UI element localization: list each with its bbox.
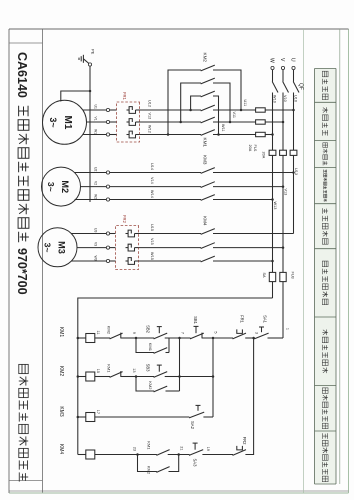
svg-text:W: W <box>269 58 275 63</box>
wire SA3 to node21 <box>168 454 190 456</box>
wire label W14 <box>150 190 154 198</box>
coil KM4 <box>86 450 95 459</box>
wire bus V13 (middle phase) <box>282 106 284 338</box>
label KM1 (coil) <box>58 327 64 338</box>
wire M1 phase3 drop <box>265 134 272 136</box>
svg-text:KM3: KM3 <box>203 155 208 165</box>
wire node1 drop <box>268 337 284 339</box>
junction M1 tap V <box>282 121 285 124</box>
wire M3 phase2 drop <box>213 247 283 249</box>
coil KM1 <box>86 334 95 343</box>
terminal M2 U <box>106 171 109 174</box>
junction out tie ph2 <box>179 121 182 124</box>
function table: header band <box>304 29 340 493</box>
wire KM2 out 3 to M1 ph1 <box>191 96 201 110</box>
svg-text:FR2: FR2 <box>122 215 127 224</box>
wire label U11 <box>243 100 247 107</box>
svg-text:SA3: SA3 <box>193 459 198 468</box>
svg-text:FR1: FR1 <box>122 92 127 101</box>
wire M1 phase2 <box>213 121 256 123</box>
wire KM1 contact to node23 <box>138 454 157 456</box>
function label 控制电源保护 <box>322 261 328 305</box>
wire M3 ph1 to terminal <box>110 233 116 235</box>
motor M2 (rapid traverse motor) <box>42 167 81 206</box>
svg-text:20A: 20A <box>262 152 266 159</box>
wire label W15 <box>150 252 154 260</box>
svg-text:SB1: SB1 <box>193 316 198 325</box>
fuse FU1 phase1 <box>256 108 266 112</box>
wire M2 ph3 to terminal <box>110 199 201 201</box>
node 11 label <box>96 331 100 335</box>
svg-text:U11: U11 <box>243 100 247 107</box>
wire KM2 coil to rail <box>78 376 86 378</box>
svg-text:U: U <box>290 58 296 62</box>
wire to KM1 coil <box>95 337 110 339</box>
svg-text:7: 7 <box>180 332 184 334</box>
contactor KM2 main contacts (spindle reverse) <box>201 53 215 97</box>
function label 冷却泵电机 <box>322 208 328 244</box>
junction out tie ph3 <box>167 133 170 136</box>
wire FR1 to node5 <box>202 337 233 339</box>
label SA <box>262 273 266 279</box>
junction M3 tap V <box>282 246 285 249</box>
motor M1 (spindle motor) <box>43 100 87 144</box>
junction node 3 <box>252 337 255 340</box>
terminal M1 U <box>106 108 109 111</box>
wire label V12 <box>148 113 152 120</box>
junction rail KM1 <box>77 337 80 340</box>
wire M1 phase1 (fuse to contact) <box>213 109 256 111</box>
coil KM2 <box>86 372 95 381</box>
fuse on bus phase b <box>280 150 287 155</box>
motor lead label V1 <box>94 117 98 121</box>
junction tie U11-KM2 <box>240 109 243 112</box>
svg-text:20A: 20A <box>248 145 252 152</box>
wire KM1 coil to rail <box>78 337 86 339</box>
svg-text:KM1: KM1 <box>147 441 152 450</box>
stop button SB1 (NC) <box>190 316 204 339</box>
wire label V11 <box>232 112 236 118</box>
motor lead label V2 <box>94 181 98 185</box>
start button SB2 (NO) <box>146 325 168 339</box>
contactor KM1 auxiliary contact (self-hold) <box>148 343 167 354</box>
svg-text:V10: V10 <box>283 95 287 102</box>
svg-text:W2: W2 <box>94 194 98 199</box>
wire label V15 <box>150 238 154 245</box>
wire SB3 to node13 <box>136 376 154 378</box>
svg-text:W3: W3 <box>94 256 98 261</box>
wire M3 ph3 to terminal <box>110 260 116 262</box>
wire M1 ph3 to terminal <box>110 134 117 136</box>
function label 主轴电机 <box>322 107 328 135</box>
svg-text:M3: M3 <box>57 241 67 254</box>
function label 冷却泵电机控制 <box>322 433 328 481</box>
function label 电源开关 <box>322 71 328 99</box>
contactor KM2 contact (NO) on KM4 rung <box>147 466 170 475</box>
switch SA3 <box>189 443 203 467</box>
wire M3 phase3 drop <box>213 260 273 262</box>
wire KM3 coil to rail <box>78 416 86 418</box>
motor M2 lead wires <box>75 173 107 200</box>
contactor KM1 contact (NO) on KM4 rung <box>147 441 170 455</box>
wire SB2 jumper top <box>168 338 170 353</box>
junction node 9 <box>135 337 138 340</box>
switch SA2 (coolant) <box>189 405 213 429</box>
wire SB1 to node7 <box>165 337 191 339</box>
svg-text:FR1: FR1 <box>240 315 245 324</box>
wire label W13 <box>273 202 277 210</box>
svg-text:V3: V3 <box>94 242 98 246</box>
wire label W12 <box>148 125 152 133</box>
fuse on bus phase c <box>269 150 276 155</box>
svg-text:V15: V15 <box>150 238 154 245</box>
motor lead label W3 <box>94 256 98 261</box>
wire rung B drop <box>165 376 180 378</box>
function label 主轴电机控制 <box>322 330 328 374</box>
svg-text:11: 11 <box>96 331 100 335</box>
terminal M3 V <box>106 246 109 249</box>
terminal M1 W <box>106 133 109 136</box>
svg-text:SB3: SB3 <box>146 364 151 373</box>
thermal contact FR2 (NC) <box>233 437 248 456</box>
motor lead label U1 <box>94 105 98 109</box>
wire bus W13 (bottom phase) <box>272 106 274 298</box>
svg-text:13: 13 <box>132 368 136 372</box>
svg-text:SA: SA <box>262 273 266 279</box>
svg-text:FU1: FU1 <box>253 145 257 152</box>
supply terminal V <box>279 58 285 82</box>
svg-text:FR2: FR2 <box>242 437 247 446</box>
contactor KM3 main contacts (rapid traverse) <box>201 155 215 200</box>
wire tie to KM2 branch 1 <box>213 70 241 110</box>
wire M1 ph2 to FR1 <box>140 121 202 123</box>
svg-text:U10: U10 <box>293 95 297 102</box>
wire node23 to KM4 coil <box>95 454 138 456</box>
function label 刀架快速移动电机 <box>324 170 327 202</box>
motor lead label U3 <box>94 228 98 232</box>
node 9 label <box>132 332 136 334</box>
svg-text:CA6140: CA6140 <box>15 52 29 98</box>
wire label W11 <box>221 124 225 132</box>
wire tie to KM2 branch 3 <box>213 96 219 135</box>
svg-text:W11: W11 <box>221 124 225 132</box>
PE terminal and ground symbol <box>79 49 96 66</box>
junction M1 tap W <box>271 133 274 136</box>
contactor KM1 interlock contact (NC) on KM2 rung <box>107 364 123 377</box>
wire node21 jumper <box>169 455 179 472</box>
junction node 13 <box>135 375 138 378</box>
svg-text:W14: W14 <box>150 190 154 198</box>
svg-text:KM4: KM4 <box>203 216 208 226</box>
supply terminal W <box>269 58 275 82</box>
wire M1 ph1 to FR1 <box>140 109 202 111</box>
motor M1 lead wires <box>83 110 107 135</box>
svg-text:W1: W1 <box>94 129 98 134</box>
wire aux KM2 bottom <box>136 377 154 392</box>
wire label U14 <box>150 163 154 170</box>
label KM2 (coil) <box>58 366 64 377</box>
wire aux KM1 self-hold drop <box>166 352 170 354</box>
contactor KM2 auxiliary contact (self-hold) <box>148 381 167 392</box>
label FU3 <box>290 272 294 279</box>
fuse on bus phase a <box>290 150 297 155</box>
svg-text:KM3: KM3 <box>58 406 64 417</box>
svg-text:KM1: KM1 <box>107 364 112 373</box>
start button SB3 (NO) <box>146 364 168 378</box>
svg-text:KM2: KM2 <box>148 381 153 390</box>
svg-text:W15: W15 <box>150 252 154 260</box>
junction tie V11-KM2 <box>229 121 232 124</box>
wire M1 phase1 drop <box>265 109 293 111</box>
svg-text:KM1: KM1 <box>203 138 208 148</box>
title block separator <box>9 29 43 493</box>
svg-text:FU3: FU3 <box>290 272 294 279</box>
wire node13 down <box>121 376 136 378</box>
wire KM2 out 2 to M1 ph2 <box>181 83 201 122</box>
wire label V13 <box>284 189 288 196</box>
wire M1 ph1 to terminal <box>110 109 117 111</box>
node 19 label <box>206 447 210 451</box>
thermal contact FR1 (NC) <box>233 315 247 339</box>
motor lead label V3 <box>94 242 98 246</box>
wire M2 phase1 drop <box>213 172 294 174</box>
circuit breaker QF <box>272 82 303 107</box>
wire control return rail <box>78 298 273 455</box>
svg-text:W10: W10 <box>272 95 276 103</box>
wire M2 ph1 to terminal <box>110 172 201 174</box>
title text 苏州经贸职业技术学院 <box>19 364 28 481</box>
wire feeder node7 to KM2 branch <box>179 338 181 391</box>
motor lead label W2 <box>94 194 98 199</box>
svg-text:V2: V2 <box>94 181 98 185</box>
junction tie W11-KM2 <box>217 133 220 136</box>
wire FR2 to node19 <box>202 454 233 456</box>
svg-text:U14: U14 <box>150 163 154 170</box>
junction out tie ph1 <box>189 109 192 112</box>
wire node9 down <box>121 337 136 339</box>
svg-text:M1: M1 <box>62 116 73 130</box>
wire KM2 contact to node23 <box>138 455 157 472</box>
svg-text:970*700: 970*700 <box>15 248 29 295</box>
wire KM2 out 1 to M1 ph3 <box>168 70 201 135</box>
svg-text:KM4: KM4 <box>58 444 64 455</box>
svg-text:M2: M2 <box>60 180 70 193</box>
junction node 5 <box>212 337 215 340</box>
svg-text:23: 23 <box>133 447 137 451</box>
svg-text:KM1: KM1 <box>148 343 153 352</box>
wire KM4 coil to rail <box>78 454 86 456</box>
node 7 label <box>180 332 184 334</box>
wire label V10 <box>283 95 287 102</box>
svg-text:V13: V13 <box>284 189 288 196</box>
fuse FU3 (control feed) <box>280 272 286 281</box>
wire M1 ph3 to FR1 <box>140 134 202 136</box>
title text 型卧式车床电气原理图 <box>18 106 29 243</box>
svg-text:KM2: KM2 <box>147 466 152 475</box>
svg-text:V14: V14 <box>150 177 154 184</box>
junction M1 tap U <box>292 109 295 112</box>
fuse FU1 phase3 <box>256 132 266 136</box>
terminal M3 U <box>106 232 109 235</box>
wire M3 phase1 drop (bus U end) <box>213 233 294 235</box>
junction PE stub <box>89 90 92 93</box>
wire M2 phase2 drop <box>213 186 283 188</box>
svg-text:SB2: SB2 <box>146 325 151 334</box>
svg-text:W12: W12 <box>148 125 152 133</box>
terminal M2 W <box>106 198 109 201</box>
thermal overload relay FR2 (heaters) <box>116 215 139 270</box>
junction node 7 <box>178 337 181 340</box>
title text CA6140 <box>15 52 29 98</box>
wire M2 ph2 to terminal <box>110 186 201 188</box>
junction M3 tap W <box>271 260 274 263</box>
contactor KM1 main contacts (spindle forward) <box>201 105 215 147</box>
svg-text:3~: 3~ <box>46 182 56 192</box>
svg-text:KM2: KM2 <box>203 53 208 63</box>
svg-text:U13: U13 <box>294 168 298 175</box>
wire feeder node3 to FR2 <box>245 338 253 455</box>
wire M2 phase3 drop <box>213 199 273 201</box>
svg-text:19: 19 <box>206 447 210 451</box>
motor lead label U2 <box>94 167 98 171</box>
node 21 label <box>180 446 184 450</box>
wire PE stub to M1 frame <box>61 91 90 102</box>
svg-text:U1: U1 <box>94 105 98 109</box>
svg-text:V1: V1 <box>94 117 98 121</box>
svg-text:KM2: KM2 <box>107 326 112 335</box>
wire feeder link <box>180 376 214 378</box>
junction rail KM3 <box>77 416 80 419</box>
label 20A (FU1) <box>248 145 252 152</box>
junction M2 tap U <box>292 171 295 174</box>
wire label V14 <box>150 177 154 184</box>
wire M1 ph2 to terminal <box>110 121 117 123</box>
wire M1 phase2 drop <box>265 121 283 123</box>
wire label U13 <box>294 168 298 175</box>
wire label U10 <box>293 95 297 102</box>
svg-text:U12: U12 <box>148 100 152 107</box>
junction rail KM2 <box>77 375 80 378</box>
wire feeder node5 to SA2 <box>212 338 214 417</box>
wire KM2 aux feed <box>166 390 180 392</box>
svg-text:3~: 3~ <box>43 243 53 253</box>
fuse FU1 phase2 <box>256 120 266 124</box>
function table: cells <box>315 69 337 485</box>
svg-text:U2: U2 <box>94 167 98 171</box>
junction M2 tap W <box>271 198 274 201</box>
node 1 label <box>286 328 290 330</box>
svg-text:V12: V12 <box>148 113 152 120</box>
svg-text:W13: W13 <box>273 202 277 210</box>
supply terminal U <box>290 58 296 82</box>
motor M3 lead wires <box>71 234 106 262</box>
wire label U15 <box>150 224 154 231</box>
svg-text:SA2: SA2 <box>190 421 195 430</box>
node 5 label <box>214 331 218 333</box>
label FU1 <box>253 145 257 152</box>
contactor KM4 main contacts (coolant pump) <box>201 216 215 262</box>
junction feeder link bottom <box>178 375 181 378</box>
svg-text:KM2: KM2 <box>58 366 64 377</box>
svg-text:5: 5 <box>214 331 218 333</box>
wire label U12 <box>148 100 152 107</box>
wire M1 phase3 <box>213 134 256 136</box>
svg-text:17: 17 <box>96 410 100 414</box>
label KM3 (coil) <box>58 406 64 417</box>
terminal M1 V <box>106 120 109 123</box>
motor lead label W1 <box>94 129 98 134</box>
wire SA2 to KM3 coil <box>95 416 190 418</box>
coil KM3 <box>86 413 95 422</box>
wire SB2 to node9 <box>136 337 154 339</box>
svg-text:1: 1 <box>286 328 290 330</box>
svg-text:15: 15 <box>96 369 100 373</box>
node 13 label <box>132 368 136 372</box>
title text 970*700 <box>15 248 29 295</box>
wire M3 ph3 to FR2 <box>139 260 202 262</box>
switch SA1 <box>254 315 268 339</box>
svg-text:V11: V11 <box>232 112 236 118</box>
node 23 label <box>133 447 137 451</box>
svg-text:3: 3 <box>254 332 258 334</box>
function label 短路保护 <box>323 143 328 166</box>
svg-text:KM1: KM1 <box>58 327 64 338</box>
terminal M3 W <box>106 259 109 262</box>
junction feeder link top <box>212 375 215 378</box>
label KM4 (coil) <box>58 444 64 455</box>
wire M3 ph1 to FR2 <box>139 233 202 235</box>
junction node 21 <box>177 453 180 456</box>
contactor KM2 interlock contact (NC) on KM1 rung <box>107 326 123 339</box>
svg-text:U15: U15 <box>150 224 154 231</box>
wire SA1 to node3 <box>245 337 255 339</box>
wire PE line <box>89 66 91 202</box>
svg-text:9: 9 <box>132 332 136 334</box>
thermal overload relay FR1 (heaters) <box>117 92 140 142</box>
wire M3 ph2 to terminal <box>110 247 116 249</box>
wire aux KM1 bottom <box>136 338 154 353</box>
function label 刀架快速移动 <box>322 388 328 429</box>
node 17 label <box>96 410 100 414</box>
node 15 label <box>96 369 100 373</box>
svg-text:QF: QF <box>298 83 304 90</box>
svg-text:PE: PE <box>91 49 96 55</box>
wire tie to KM2 branch 2 <box>213 83 230 122</box>
terminal M2 V <box>106 185 109 188</box>
svg-text:SA1: SA1 <box>263 315 268 324</box>
svg-text:21: 21 <box>180 446 184 450</box>
wire bus U13 (top phase) <box>293 106 295 234</box>
junction node 23 <box>136 453 139 456</box>
label 20A (bus fuse) <box>262 152 266 159</box>
svg-text:U3: U3 <box>94 228 98 232</box>
wire label W10 <box>272 95 276 103</box>
svg-text:3~: 3~ <box>48 117 58 127</box>
junction M2 tap V <box>282 185 285 188</box>
wire M3 ph2 to FR2 <box>139 247 202 249</box>
fuse SA (control return) <box>269 272 275 281</box>
motor M3 (coolant pump motor) <box>38 228 77 267</box>
node 3 label <box>254 332 258 334</box>
wire to KM2 coil <box>95 376 110 378</box>
